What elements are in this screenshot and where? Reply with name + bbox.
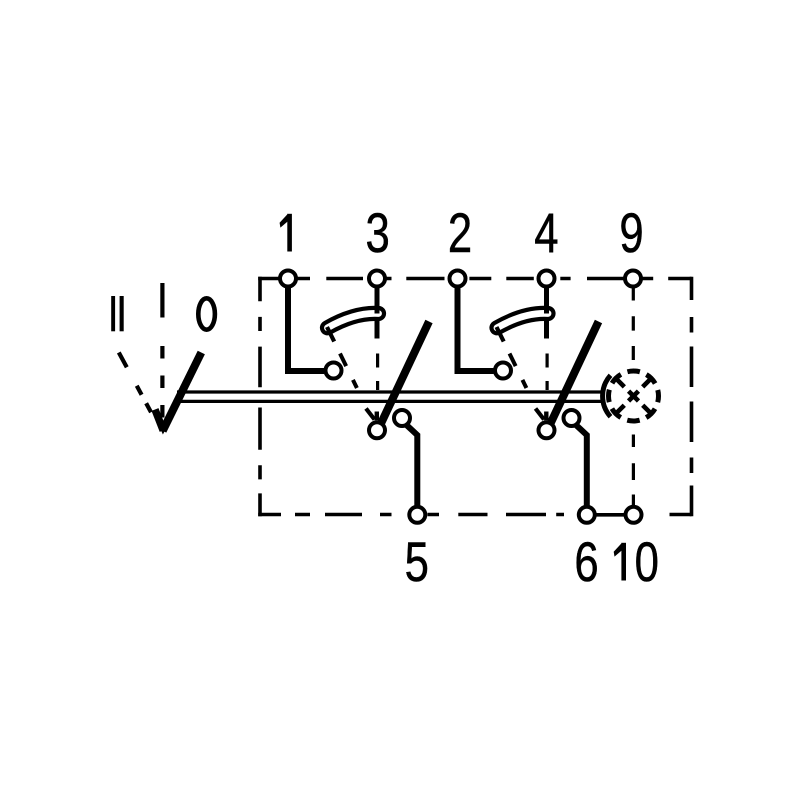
lamp E1 (illumination): [603, 371, 659, 421]
actuator arrowhead tip: [159, 424, 169, 435]
dashed actuator line for position I: [160, 346, 164, 418]
actuator arrowhead left prong: [155, 410, 163, 431]
enclosure dashed border right edge: [690, 277, 694, 517]
wire from S2 output contact to terminal 6: [576, 425, 587, 507]
dashed travel line of S2: [510, 354, 545, 425]
contact bridge (rocker) of S2: [497, 288, 548, 328]
dashed lamp feed wire from terminal 9 to lamp: [632, 286, 635, 360]
svg-text:5: 5: [405, 531, 429, 593]
dashed lamp feed wire from lamp to terminal 10: [632, 435, 635, 508]
wire stub from terminal 3 (S1): [375, 286, 380, 339]
svg-text:3: 3: [365, 202, 389, 264]
svg-text:6: 6: [574, 531, 598, 593]
enclosure dashed border left edge: [258, 277, 262, 517]
wire from terminal 1 to contact of switch S1: [288, 286, 324, 371]
terminal 6: [579, 507, 595, 523]
pivot contact circle of S1: [369, 422, 385, 438]
terminal 4: [539, 271, 555, 287]
output contact circle of S2: [564, 410, 580, 426]
wire stub from terminal 4 (S2): [544, 286, 549, 339]
mechanical coupling double bar: [177, 392, 602, 401]
terminal 5: [409, 507, 425, 523]
dashed vertical below terminal 4 stub (S2): [545, 354, 548, 391]
terminal 1: [280, 271, 296, 287]
end-of-travel tick at S1 pivot: [375, 412, 379, 421]
svg-text:0: 0: [635, 531, 659, 593]
contact bridge (rocker) of S1: [328, 288, 379, 328]
svg-text:4: 4: [534, 202, 558, 264]
contact circle on wire of S2: [495, 363, 511, 379]
actuator position label II: [111, 296, 124, 331]
lever of switch S2: [550, 322, 599, 425]
output contact circle of S1: [394, 410, 410, 426]
dashed travel line of S1: [340, 354, 375, 425]
wire between terminal 6 and terminal 10: [594, 513, 626, 517]
wire from terminal 2 to contact of switch S2: [458, 286, 494, 371]
pivot contact circle of S2: [539, 422, 555, 438]
dashed actuator travel line to position II: [119, 353, 163, 434]
actuator position label 0: [198, 298, 215, 329]
terminal 9: [625, 271, 641, 287]
actuator lever (position 0): [163, 353, 202, 431]
actuator position label I: [160, 283, 164, 318]
end-of-travel tick at S2 bridge tip: [497, 327, 504, 342]
end-of-travel tick at S1 bridge tip: [327, 327, 334, 342]
label terminal 1: [280, 214, 292, 252]
travel-line end prong at S1 pivot: [366, 409, 375, 420]
terminal 10: [626, 507, 642, 523]
svg-text:9: 9: [619, 202, 643, 264]
travel-line end prong at S2 pivot: [536, 409, 545, 420]
dashed vertical below terminal 3 stub (S1): [376, 354, 379, 391]
contact circle on wire of S1: [326, 363, 342, 379]
label terminal 10: [614, 531, 659, 593]
enclosure dashed border top edge: [258, 277, 691, 281]
lever of switch S1: [381, 322, 430, 425]
svg-text:2: 2: [448, 202, 472, 264]
enclosure dashed border bottom edge: [258, 513, 691, 517]
terminal 3: [369, 271, 385, 287]
end-of-travel tick at S2 pivot: [544, 412, 548, 421]
terminal 2: [450, 271, 466, 287]
wire from S1 output contact to terminal 5: [407, 425, 418, 507]
